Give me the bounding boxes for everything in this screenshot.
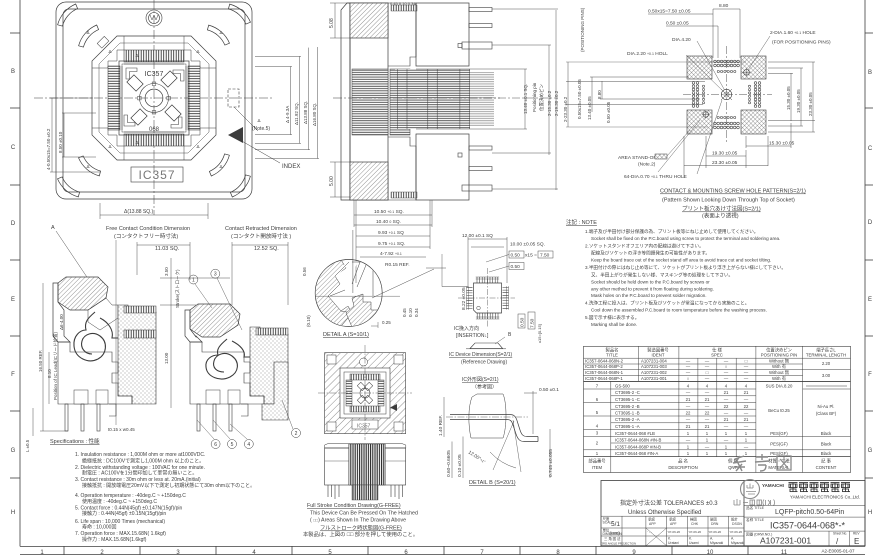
- svg-text:( □□) Areas Shown In The Drawi: ( □□) Areas Shown In The Drawing Above: [310, 518, 406, 524]
- svg-text:Δ11.92 SQ.: Δ11.92 SQ.: [294, 102, 299, 125]
- pins: [328, 485, 403, 499]
- svg-text:REV: REV: [853, 532, 860, 536]
- centerline: [446, 416, 528, 418]
- svg-text:—: —: [686, 404, 691, 409]
- svg-text:PES(GF): PES(GF): [770, 442, 788, 447]
- svg-text:製図: 製図: [710, 517, 717, 522]
- comb top right: [124, 306, 156, 313]
- svg-text:19.30 ±0.05: 19.30 ±0.05: [712, 151, 738, 157]
- full stroke side view: [325, 444, 406, 500]
- san: [733, 456, 746, 471]
- svg-text:絶緣抵抗 : DC100Vで測定し1,000M ohm 以上: 絶緣抵抗 : DC100Vで測定し1,000M ohm 以上のこと。: [82, 457, 204, 464]
- latch tab TL: [97, 36, 109, 48]
- spring loop: [74, 312, 106, 361]
- svg-text:—: —: [724, 424, 729, 429]
- svg-text:'07-06-26: '07-06-26: [689, 530, 702, 534]
- svg-text:1: 1: [192, 278, 195, 284]
- svg-text:21: 21: [724, 417, 729, 422]
- angle arc: [490, 452, 516, 468]
- hole pattern bottom dim labels: [712, 141, 795, 167]
- svg-text:15.30 ±0.05: 15.30 ±0.05: [786, 86, 791, 110]
- area standoff labels: [618, 155, 687, 180]
- svg-text:B: B: [868, 70, 872, 76]
- svg-text:3: 3: [214, 272, 217, 278]
- svg-text:SPEC: SPEC: [711, 353, 723, 358]
- svg-text:TERMINAL LENGTH: TERMINAL LENGTH: [806, 353, 846, 358]
- svg-text:DIMENSION: DIMENSION: [603, 532, 623, 536]
- logo: [146, 10, 162, 26]
- svg-text:0.56: 0.56: [302, 267, 307, 276]
- svg-text:2: 2: [295, 431, 298, 437]
- detail B lead drawing: [446, 394, 538, 472]
- svg-text:CT3695-2 -A: CT3695-2 -A: [615, 417, 640, 422]
- svg-text:検図: 検図: [690, 517, 697, 522]
- svg-text:Black: Black: [821, 451, 832, 456]
- thru holes: [692, 60, 761, 129]
- svg-text:4: 4: [247, 442, 250, 448]
- side view right dim labels: [523, 82, 559, 116]
- hole pattern right dim labels: [786, 86, 813, 116]
- svg-text:C: C: [868, 146, 873, 152]
- svg-text:名称 TITLE: 名称 TITLE: [746, 517, 765, 522]
- svg-text:—: —: [686, 438, 691, 443]
- stipple big block right section: [262, 362, 288, 420]
- svg-text:□: □: [706, 370, 709, 375]
- svg-text:IDENT: IDENT: [652, 353, 665, 358]
- svg-text:5: 5: [231, 442, 234, 448]
- svg-text:Δ 4-9.3A: Δ 4-9.3A: [285, 106, 290, 123]
- svg-text:0.10 ±0.05: 0.10 ±0.05: [457, 454, 463, 477]
- svg-text:—: —: [686, 359, 691, 364]
- QFP dim labels: [461, 233, 553, 343]
- svg-text:CT3695-1 -B: CT3695-1 -B: [615, 411, 640, 416]
- title block: [601, 481, 865, 546]
- svg-text:13.00: 13.00: [164, 352, 169, 364]
- svg-text:21: 21: [744, 390, 749, 395]
- hatched cap wall band: [312, 258, 352, 330]
- upper arm white block: [88, 298, 118, 330]
- svg-text:Uratani: Uratani: [668, 541, 679, 545]
- svg-text:□: □: [745, 359, 748, 364]
- QFP side profile: [466, 343, 506, 349]
- svg-text:（参考図）: （参考図）: [472, 384, 497, 391]
- circled part numbers: [189, 269, 301, 448]
- hole pattern left dim labels: [563, 7, 611, 123]
- svg-text:—: —: [724, 359, 729, 364]
- svg-text:'07-06-26: '07-06-26: [668, 530, 681, 534]
- svg-text:CT3695-1 -C: CT3695-1 -C: [615, 397, 640, 402]
- svg-text:0.45: 0.45: [402, 308, 407, 317]
- hatched bottom: [350, 162, 388, 200]
- svg-text:22: 22: [724, 404, 729, 409]
- svg-text:8.80: 8.80: [597, 90, 602, 99]
- svg-text:Specifications : 性能: Specifications : 性能: [50, 437, 100, 445]
- svg-text:CT3695-2 -C: CT3695-2 -C: [615, 390, 640, 395]
- svg-text:G: G: [11, 448, 16, 454]
- svg-text:4-0.50x15=7.50 ±0.2: 4-0.50x15=7.50 ±0.2: [46, 128, 51, 170]
- svg-text:Miyazaki: Miyazaki: [731, 541, 744, 545]
- socket top view: [34, 0, 274, 215]
- svg-text:22: 22: [705, 411, 710, 416]
- svg-text:CONTACT & MOUNTING SCREW HOLE: CONTACT & MOUNTING SCREW HOLE PATTERN(S=…: [660, 189, 806, 195]
- retracted contact section: [185, 304, 288, 431]
- body stipple right: [118, 305, 156, 404]
- svg-text:Socket shall be fixed on the P: Socket shall be fixed on the P.C.board u…: [591, 236, 780, 241]
- gray seal: [741, 480, 760, 499]
- svg-text:12.52 SQ.: 12.52 SQ.: [254, 246, 279, 252]
- cap hatched: [58, 277, 108, 310]
- svg-text:(表面より透視): (表面より透視): [702, 212, 739, 220]
- svg-text:品 名: 品 名: [678, 458, 688, 465]
- svg-text:—: —: [744, 411, 749, 416]
- svg-text:C: C: [11, 145, 16, 151]
- zu: [777, 456, 791, 470]
- svg-text:○: ○: [725, 364, 728, 369]
- bottom teeth strip: [391, 192, 417, 198]
- inner square frame: [119, 61, 189, 135]
- cap side wall: [341, 3, 350, 200]
- svg-text:IC357-0644-068 #LB: IC357-0644-068 #LB: [615, 431, 655, 436]
- svg-text:(FOR POSITIONING PINS): (FOR POSITIONING PINS): [772, 40, 831, 46]
- side section view: [333, 3, 500, 200]
- svg-text:Black: Black: [821, 442, 832, 447]
- svg-text:CHK: CHK: [691, 522, 699, 526]
- svg-text:—: —: [686, 370, 691, 375]
- corner arc slot TL: [58, 4, 78, 26]
- hole pattern left dims: [566, 62, 746, 127]
- svg-text:(Pattern Shown Looking Down Th: (Pattern Shown Looking Down Through Top …: [662, 198, 795, 204]
- svg-text:Free Contact Condition Dimensi: Free Contact Condition Dimension: [106, 226, 190, 232]
- svg-text:(コンタクトフリー時寸法): (コンタクトフリー時寸法): [114, 232, 178, 240]
- svg-text:0.50: 0.50: [520, 317, 526, 327]
- svg-text:0.745 ±0.055: 0.745 ±0.055: [548, 449, 554, 477]
- svg-text:A.: A.: [731, 537, 734, 541]
- svg-text:B: B: [11, 69, 15, 75]
- svg-text:Full Stroke Condition Drawing(: Full Stroke Condition Drawing(G-FREE): [307, 503, 401, 509]
- svg-text:プリント板穴あけ寸法図(S=2/1): プリント板穴あけ寸法図(S=2/1): [682, 205, 761, 213]
- hole pattern dims top: [648, 9, 770, 93]
- detail A: [312, 230, 400, 330]
- svg-text:又、半田上がりが発生しない様、マスキング等の処理をして下さい: 又、半田上がりが発生しない様、マスキング等の処理をして下さい。: [591, 272, 733, 279]
- IC357 box: [352, 420, 378, 429]
- svg-text:—: —: [724, 376, 729, 381]
- svg-text:3.00: 3.00: [822, 373, 831, 378]
- svg-text:5.00: 5.00: [329, 176, 335, 186]
- area standoff leader lines: [658, 100, 722, 174]
- svg-text:2.20: 2.20: [822, 361, 831, 366]
- L dim line: [32, 408, 34, 436]
- svg-text:Ni-Au Pl.: Ni-Au Pl.: [818, 404, 835, 409]
- table footer: [588, 458, 836, 471]
- zone numbers bottom: [40, 550, 787, 555]
- section sq dim lines: [137, 242, 288, 305]
- svg-text:0.45 0.10 0.34: 0.45 0.10 0.34: [390, 1, 416, 6]
- svg-text:13.40 ±0.1 SQ.: 13.40 ±0.1 SQ.: [523, 84, 528, 114]
- centerlines: [364, 345, 366, 440]
- svg-text:1.端子及び半田付け部分保護の為、プリント板等にねじ止めして: 1.端子及び半田付け部分保護の為、プリント板等にねじ止めして使用してください。: [585, 228, 758, 235]
- svg-text:10.00 ±0.05 SQ.: 10.00 ±0.05 SQ.: [510, 242, 545, 248]
- svg-text:Δ: Δ: [257, 118, 260, 123]
- svg-text:Keep the board trace out of th: Keep the board trace out of the socket s…: [591, 258, 771, 263]
- svg-text:接触力 : 0.44N(45gf) ±0.15N(15gf): 接触力 : 0.44N(45gf) ±0.15N(15gf)/pin: [82, 510, 166, 517]
- right block bottom: [416, 134, 469, 200]
- svg-text:IC357-0644-068*-*: IC357-0644-068*-*: [770, 521, 846, 531]
- left grid: [601, 516, 744, 546]
- svg-text:10: 10: [707, 550, 714, 555]
- svg-text:8.10: 8.10: [47, 369, 52, 378]
- svg-text:寿命 : 10,000回: 寿命 : 10,000回: [82, 524, 116, 531]
- svg-text:GS-500: GS-500: [615, 384, 630, 389]
- svg-text:BeCu t0.25: BeCu t0.25: [768, 408, 790, 413]
- svg-text:承認: 承認: [669, 517, 676, 522]
- svg-text:22: 22: [686, 411, 691, 416]
- svg-text:0.25: 0.25: [382, 320, 391, 325]
- svg-text:11.03 SQ.: 11.03 SQ.: [155, 246, 180, 252]
- pins: [197, 404, 248, 431]
- svg-text:2.ソケットスタンドオフエリア内の配線は避けて下さい。: 2.ソケットスタンドオフエリア内の配線は避けて下さい。: [585, 243, 704, 250]
- spring loop: [206, 339, 238, 379]
- svg-text:22: 22: [744, 404, 749, 409]
- svg-text:Δ: Δ: [196, 144, 199, 149]
- svg-text:3RD ANGLE PROJECTION: 3RD ANGLE PROJECTION: [602, 542, 637, 546]
- svg-text:位置決めピン: 位置決めピン: [538, 84, 545, 111]
- cap hatched: [190, 304, 240, 337]
- svg-text:Positioning pin: Positioning pin: [532, 82, 537, 112]
- svg-text:A107231-001: A107231-001: [760, 536, 811, 546]
- svg-text:11: 11: [781, 550, 788, 555]
- svg-text:[INSERTION↓]: [INSERTION↓]: [456, 333, 489, 339]
- svg-text:D: D: [868, 220, 873, 226]
- svg-text:E: E: [868, 297, 872, 303]
- svg-text:IC357: IC357: [357, 424, 371, 430]
- svg-text:—: —: [724, 411, 729, 416]
- logo: [360, 358, 368, 366]
- label A leader line: [56, 231, 97, 292]
- svg-text:ITEM: ITEM: [592, 465, 603, 470]
- svg-text:6: 6: [214, 442, 217, 448]
- svg-text:CONTENT: CONTENT: [816, 465, 837, 470]
- pins top/bottom: [476, 277, 499, 283]
- svg-text:YAMAICHI: YAMAICHI: [762, 483, 784, 488]
- svg-text:15.30 ±0.05: 15.30 ±0.05: [769, 141, 795, 147]
- svg-text:TITLE: TITLE: [606, 353, 618, 358]
- hole pattern bottom dims: [684, 123, 791, 178]
- body block outline: [350, 3, 388, 200]
- svg-text:—: —: [744, 376, 749, 381]
- svg-text:SUS DIA.8.20: SUS DIA.8.20: [766, 384, 793, 389]
- svg-text:LQFP-pitch0.50-64Pin: LQFP-pitch0.50-64Pin: [775, 509, 844, 516]
- svg-text:IC357-0644-068N #IN-B: IC357-0644-068N #IN-B: [615, 438, 661, 443]
- svg-text:IC357-0644-068P-2: IC357-0644-068P-2: [585, 364, 623, 369]
- svg-text:' - -: ' - -: [648, 530, 652, 534]
- svg-text:PES(GF): PES(GF): [770, 431, 788, 436]
- svg-text:F: F: [868, 372, 872, 378]
- svg-text:0.50x15=7.50 ±0.05: 0.50x15=7.50 ±0.05: [648, 9, 691, 15]
- cap octagon: [92, 36, 216, 160]
- svg-text:使用温度 : -40deg.C ~ +150deg.C: 使用温度 : -40deg.C ~ +150deg.C: [82, 498, 157, 505]
- sparse contact tails: [470, 72, 494, 126]
- centerline horizontal: [34, 97, 274, 99]
- svg-text:—: —: [705, 417, 710, 422]
- svg-text:F: F: [11, 372, 15, 378]
- free section dim labels: [38, 314, 64, 400]
- svg-text:設計: 設計: [731, 517, 738, 522]
- corner L marks: [126, 68, 137, 79]
- svg-text:—: —: [705, 404, 710, 409]
- warn triangles on cap: [86, 30, 222, 169]
- svg-text:IC挽入方向: IC挽入方向: [454, 325, 479, 332]
- svg-text:Δ: Δ: [108, 144, 111, 149]
- svg-text:0.50: 0.50: [511, 264, 521, 270]
- svg-text:23.30 ±0.05: 23.30 ±0.05: [712, 160, 738, 166]
- svg-text:G: G: [868, 448, 873, 454]
- svg-text:A107231-001: A107231-001: [641, 376, 667, 381]
- svg-text:YAMAICHI ELECTRONICS Co.,Ltd.: YAMAICHI ELECTRONICS Co.,Ltd.: [790, 495, 860, 500]
- svg-text:IC357-0644-068P #IN-B: IC357-0644-068P #IN-B: [615, 444, 661, 449]
- detail A 0.25 dim lines: [371, 322, 378, 328]
- svg-text:(0.10): (0.10): [306, 315, 311, 327]
- gray stamp sankozu (vector kanji): [733, 454, 791, 471]
- comb top right: [256, 328, 288, 335]
- dim 5.08: [330, 3, 350, 38]
- cap corner steps: [92, 36, 124, 68]
- svg-text:DESCRIPTION: DESCRIPTION: [668, 465, 697, 470]
- stroke dims: [160, 258, 230, 408]
- svg-text:0.50: 0.50: [511, 253, 521, 259]
- svg-text:品名 TITLE: 品名 TITLE: [746, 505, 765, 510]
- svg-text:8.22 ±0.05: 8.22 ±0.05: [461, 287, 467, 310]
- step block top: [388, 3, 416, 66]
- contact zone: [395, 69, 470, 129]
- svg-text:POSITIONING PIN: POSITIONING PIN: [761, 353, 798, 358]
- svg-text:A: A: [51, 225, 55, 231]
- svg-text:2-DIA.1.60 +0.1 HOLE: 2-DIA.1.60 +0.1 HOLE: [770, 30, 816, 36]
- note5 dashed rect: [228, 89, 258, 131]
- IC device titles: [449, 352, 513, 391]
- outer rounded square: [56, 2, 252, 199]
- svg-text:21: 21: [744, 417, 749, 422]
- svg-text:Δ: Δ: [135, 140, 138, 145]
- svg-text:—: —: [686, 390, 691, 395]
- svg-text:—: —: [744, 370, 749, 375]
- center hole DIA 4.20: [721, 89, 731, 99]
- crosshatch mount squares: [687, 56, 712, 79]
- svg-text:—: —: [744, 444, 749, 449]
- svg-text:D: D: [11, 221, 16, 227]
- svg-text:(Note.2): (Note.2): [638, 162, 656, 168]
- centerlines: [487, 268, 489, 328]
- detail B dim labels: [438, 387, 559, 477]
- svg-text:CT3695-1 -A: CT3695-1 -A: [615, 424, 640, 429]
- top view left dim labels: [46, 128, 63, 170]
- svg-text:Contact Retracted Dimension: Contact Retracted Dimension: [225, 226, 297, 232]
- svg-text:IC357: IC357: [138, 168, 175, 182]
- body: [474, 283, 502, 313]
- body bottom: [58, 342, 132, 404]
- svg-text:IC357-0644-068N-2: IC357-0644-068N-2: [585, 359, 624, 364]
- QFP device drawing: [458, 268, 515, 328]
- center: [360, 388, 370, 398]
- svg-text:21: 21: [705, 424, 710, 429]
- svg-text:H: H: [11, 510, 15, 516]
- svg-text:7.50: 7.50: [540, 253, 550, 259]
- svg-text:10.40 0 SQ.: 10.40 0 SQ.: [376, 219, 401, 225]
- hole pattern title: [660, 189, 806, 220]
- svg-text:耐電圧 : AC100Vを1分間印加して睪常の無いこと。: 耐電圧 : AC100Vを1分間印加して睪常の無いこと。: [82, 470, 197, 477]
- section titles: [106, 226, 297, 252]
- svg-text:0.60~0.6605: 0.60~0.6605: [446, 450, 452, 477]
- svg-text:部品番号: 部品番号: [588, 458, 605, 465]
- svg-text:'07-06-26: '07-06-26: [709, 530, 722, 534]
- svg-text:—: —: [705, 444, 710, 449]
- svg-text:21: 21: [686, 424, 691, 429]
- svg-text:12.00 ±0.1 SQ: 12.00 ±0.1 SQ: [462, 233, 493, 239]
- svg-text:—: —: [705, 364, 710, 369]
- svg-text:21: 21: [686, 397, 691, 402]
- area standoff hatch sample: [655, 154, 667, 159]
- svg-text:(Reference Drawing): (Reference Drawing): [461, 360, 507, 366]
- svg-text:指定外寸法公差 TOLERANCES ±0.3: 指定外寸法公差 TOLERANCES ±0.3: [620, 499, 718, 507]
- svg-text:7.50: 7.50: [530, 318, 536, 328]
- svg-text:—: —: [724, 438, 729, 443]
- zone letters right: [868, 70, 873, 516]
- svg-text:068: 068: [149, 127, 160, 133]
- detail B dims: [444, 391, 550, 478]
- svg-text:Δ: Δ: [86, 164, 89, 169]
- svg-text:5.08: 5.08: [329, 18, 335, 28]
- svg-text:Cool down the assembled P.C.bo: Cool down the assembled P.C.board to roo…: [591, 308, 767, 313]
- combs: [350, 374, 380, 380]
- white channel: [335, 262, 356, 306]
- svg-text:—: —: [705, 390, 710, 395]
- svg-text:21: 21: [705, 397, 710, 402]
- ghost body: [469, 394, 506, 438]
- left wall: [53, 283, 70, 342]
- detail A small dims: [382, 308, 419, 325]
- paddles: [161, 71, 177, 87]
- svg-text:APP: APP: [649, 522, 657, 526]
- svg-text:CT3695-2 -B: CT3695-2 -B: [615, 404, 640, 409]
- small dims right of sections: [25, 267, 311, 452]
- svg-text:IC357-0644-068 #IN-A: IC357-0644-068 #IN-A: [615, 451, 658, 456]
- svg-text:—: —: [724, 397, 729, 402]
- svg-text:Unless Otherwise Specified: Unless Otherwise Specified: [628, 510, 701, 516]
- body stipple right: [250, 327, 288, 404]
- svg-text:H: H: [868, 510, 872, 516]
- svg-text:Miyazaki: Miyazaki: [710, 541, 723, 545]
- title block small labels: [602, 516, 745, 546]
- contact comb bands left right: [108, 66, 200, 130]
- bottom dim 13.88: [100, 203, 208, 219]
- right rotated dims 11.93: [285, 102, 299, 125]
- step block mid combs: [390, 69, 410, 135]
- parts table: [584, 346, 851, 472]
- svg-text:t0.15 x w0.45: t0.15 x w0.45: [108, 427, 135, 432]
- hole pattern right dims: [768, 62, 815, 132]
- svg-text:—: —: [744, 364, 749, 369]
- label B leader line: [495, 337, 505, 344]
- svg-text:AREA STAND-OFF: AREA STAND-OFF: [618, 155, 659, 161]
- QFP dims: [442, 237, 509, 287]
- svg-text:材質・寸法: 材質・寸法: [768, 458, 790, 465]
- zone letters left: [11, 69, 16, 516]
- svg-text:Δ13.88 SQ.: Δ13.88 SQ.: [303, 101, 308, 124]
- svg-text:0.50 ±0.1: 0.50 ±0.1: [539, 387, 559, 393]
- svg-text:接触抵抗 : 開放端電圧20mV以下で測定し初期状態にて30: 接触抵抗 : 開放端電圧20mV以下で測定し初期状態にて30m ohm以下のこと…: [82, 482, 255, 489]
- positioning holes: [744, 70, 750, 76]
- contact comb bands: [124, 50, 184, 146]
- svg-text:Δ16.80 SQ.: Δ16.80 SQ.: [312, 103, 317, 126]
